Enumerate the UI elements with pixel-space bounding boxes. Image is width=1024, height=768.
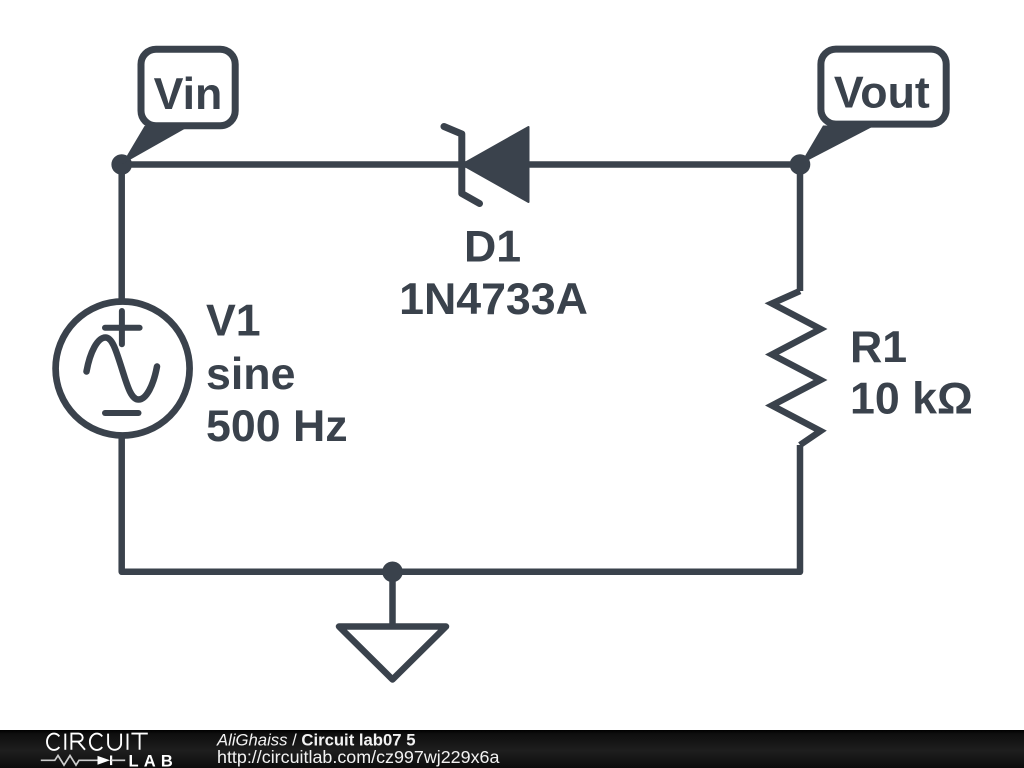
logo CIRCUIT letters (stroked) [47, 734, 148, 750]
logo letter R [71, 734, 85, 750]
node junction dot at Vin [111, 154, 132, 175]
wire main loop (top net, left branch, bottom net, right branch) [122, 165, 800, 572]
flag Vin bubble [141, 49, 235, 126]
resistor R1 (zigzag) [772, 291, 821, 445]
logo letter C [90, 734, 102, 750]
logo schematic: wire + resistor zigzag [41, 756, 98, 766]
svg-text:V1: V1 [206, 297, 261, 346]
logo letter I [127, 734, 129, 750]
voltage source V1 sine wave [87, 338, 158, 400]
svg-text:R1: R1 [850, 323, 907, 372]
svg-text:LAB: LAB [129, 752, 179, 768]
flag Vout tail [800, 126, 875, 165]
svg-text:Vout: Vout [834, 68, 930, 117]
ground symbol stub [389, 572, 396, 627]
svg-text:10 kΩ: 10 kΩ [850, 375, 973, 424]
node junction dot at ground [382, 562, 403, 583]
footer black bar [0, 730, 1024, 768]
logo letter T [131, 734, 147, 750]
svg-text:sine: sine [206, 350, 295, 399]
logo letter C [47, 734, 59, 750]
voltage source V1 minus sign [105, 410, 139, 416]
voltage source V1 plus sign [105, 311, 140, 344]
logo schematic: wire after diode [111, 759, 125, 761]
svg-text:http://circuitlab.com/cz997wj2: http://circuitlab.com/cz997wj229x6a [217, 747, 499, 767]
logo letter U [108, 734, 121, 750]
flag Vin tail [122, 126, 188, 165]
svg-text:1N4733A: 1N4733A [399, 275, 588, 324]
ground symbol triangle [339, 627, 446, 680]
zener diode D1 triangle [462, 127, 529, 202]
logo schematic: diode bar [110, 756, 112, 766]
svg-text:500 Hz: 500 Hz [206, 402, 348, 451]
flag Vout bubble [821, 49, 946, 124]
voltage source V1 (circle body) [56, 302, 190, 436]
node junction dot at Vout [790, 154, 811, 175]
zener diode D1 cathode bar with bent ends [444, 127, 480, 204]
logo schematic: diode triangle [98, 756, 111, 765]
svg-text:D1: D1 [464, 223, 521, 272]
logo letter I [64, 734, 66, 750]
svg-text:Vin: Vin [154, 70, 223, 119]
